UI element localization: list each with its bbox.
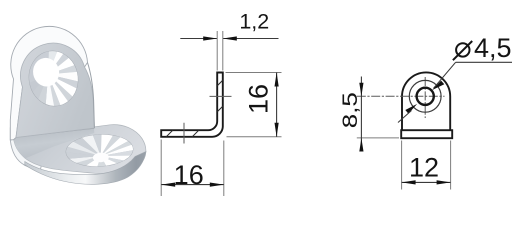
hole centerline in vertical leg	[210, 95, 232, 97]
hole centerline in bottom leg	[183, 123, 185, 144]
svg-text:4,5: 4,5	[474, 33, 512, 63]
leader line for diameter 4,5	[434, 62, 513, 88]
dimension line 12 with arrows	[402, 181, 451, 183]
countersink hole in tab	[25, 47, 82, 110]
bracket leg front thickness edge	[25, 152, 146, 185]
svg-text:8,5: 8,5	[338, 92, 362, 128]
dimension line 16 horizontal with arrows	[161, 184, 224, 186]
countersink circle (thin)	[409, 80, 441, 112]
svg-text:16: 16	[244, 84, 274, 114]
hole horizontal centerline / extension for 8,5	[357, 95, 445, 97]
diameter symbol	[456, 43, 469, 56]
tab outline with rounded top	[402, 72, 450, 130]
dimension line 8,5 with outside arrows	[360, 77, 362, 148]
bend crease line	[14, 128, 95, 137]
extension lines for 12	[402, 141, 451, 190]
bracket tab front face	[16, 43, 94, 137]
dimension line 1,2 with outside arrows	[180, 38, 278, 40]
bracket leg top face	[14, 125, 146, 174]
hole vertical centerline	[424, 77, 426, 118]
extension lines for height 16 (right of profile)	[226, 73, 282, 137]
extension lines for width 16 (below profile)	[161, 140, 224, 197]
extension lines for thickness 1,2	[217, 31, 223, 71]
bend outer white band (bottom-left silhouette)	[10, 128, 42, 172]
bend shade between tab and leg	[14, 129, 95, 159]
svg-text:16: 16	[174, 160, 204, 190]
svg-text:1,2: 1,2	[239, 10, 269, 34]
tab right edge line	[88, 63, 95, 129]
extension line bottom for 8,5	[357, 137, 399, 139]
svg-text:12: 12	[409, 152, 439, 182]
countersink hole in leg	[65, 133, 134, 168]
side profile outline	[161, 73, 223, 137]
tab thickness band (left/top edge silhouette)	[10, 26, 87, 140]
bottom edge band (leg seen edge-on)	[401, 130, 452, 138]
hole circle d4,5 (thick)	[417, 88, 434, 105]
dimension line 16 vertical with arrows	[276, 73, 278, 137]
through hole	[31, 56, 62, 89]
